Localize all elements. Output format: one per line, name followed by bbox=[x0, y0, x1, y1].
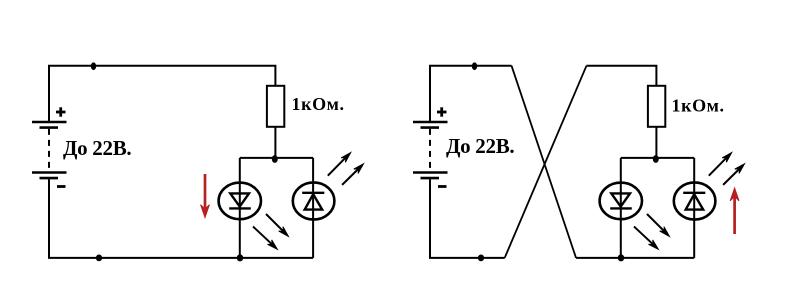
current arrow (red, down) left circuit bbox=[201, 174, 210, 218]
label: battery minus sign (right) bbox=[438, 185, 447, 188]
wire: parallel section top rail bbox=[240, 157, 313, 159]
current arrow (red, up) right circuit bbox=[730, 188, 739, 234]
LED VD3 (conducts down) bbox=[600, 183, 642, 220]
emission arrows VD4 (right circuit) bbox=[709, 153, 745, 185]
svg-text:1кОм.: 1кОм. bbox=[292, 94, 345, 114]
wire: right branch bbox=[312, 158, 314, 258]
LED VD1 (conducts down) bbox=[219, 183, 261, 220]
wire: left branch (right circuit) bbox=[620, 158, 622, 258]
emission arrows VD3 (right circuit) bbox=[634, 214, 669, 249]
node: junction dot on bottom wire bbox=[96, 255, 102, 262]
node: junction dot at parallel section top (right) bbox=[653, 155, 659, 163]
svg-text:До 22В.: До 22В. bbox=[63, 136, 131, 160]
label: До 22В. (right) bbox=[446, 134, 514, 158]
emission arrows VD1 (left circuit) bbox=[253, 214, 288, 249]
label: battery plus sign (right) bbox=[437, 107, 447, 116]
wire: resistor to parallel section bbox=[274, 127, 276, 158]
wire: X bottom-right corner to right branch bbox=[576, 257, 694, 259]
battery B1 bbox=[32, 122, 67, 178]
LED VD4 (conducts up) bbox=[674, 182, 716, 219]
wire: top wire battery to resistor bbox=[49, 66, 275, 122]
wire: crossing diagonal bottom-left to top-right bbox=[505, 66, 587, 258]
emission arrows VD2 (left circuit) bbox=[328, 153, 364, 185]
resistor R1 bbox=[267, 86, 284, 127]
svg-text:До 22В.: До 22В. bbox=[446, 134, 514, 158]
wire: parallel section top rail (right) bbox=[621, 157, 694, 159]
node: junction dot on bottom wire (right circuit) bbox=[478, 255, 484, 262]
wire: resistor to parallel section (right) bbox=[655, 127, 657, 158]
node: junction dot on top wire bbox=[91, 62, 96, 70]
wire: battery bottom to bottom wire bbox=[49, 179, 313, 258]
LED VD2 (conducts up) bbox=[293, 182, 335, 219]
label: До 22В. bbox=[63, 136, 131, 160]
node: junction dot left branch bottom (right circuit) bbox=[618, 254, 625, 261]
node: junction dot on top wire (right circuit) bbox=[472, 62, 477, 70]
wire: crossing diagonal top-left to bottom-right bbox=[512, 66, 577, 258]
wire: battery bottom to X bottom-left corner bbox=[430, 179, 505, 258]
svg-text:1кОм.: 1кОм. bbox=[672, 96, 725, 116]
battery B2 bbox=[413, 122, 448, 178]
wire: right branch (right circuit) bbox=[693, 158, 695, 258]
node: junction dot left branch bottom bbox=[237, 254, 244, 261]
wire: battery top to X top-left corner bbox=[430, 66, 512, 122]
resistor R2 bbox=[648, 86, 665, 127]
label: battery minus sign bbox=[57, 185, 66, 188]
label: 1кОм. (left) bbox=[292, 94, 345, 114]
wire: left branch bbox=[239, 158, 241, 258]
wire: X top-right corner to resistor bbox=[587, 66, 657, 86]
label: battery plus sign bbox=[56, 107, 66, 116]
node: junction dot at parallel section top bbox=[272, 155, 278, 163]
label: 1кОм. (right) bbox=[672, 96, 725, 116]
